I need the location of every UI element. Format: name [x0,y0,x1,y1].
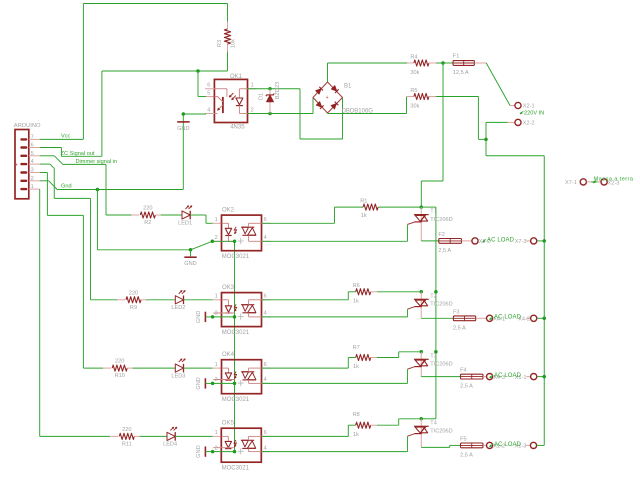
connector X1-1 [526,374,537,380]
svg-text:1: 1 [215,362,218,368]
svg-text:TIC206D: TIC206D [430,429,452,435]
connector X1-3 [526,442,537,448]
svg-text:X7-3: X7-3 [515,239,527,245]
resistor R10 220 [103,365,134,371]
wire gnd down row1 [97,190,190,250]
svg-text:F5: F5 [460,436,467,442]
wire pin4 [40,164,91,198]
svg-text:220: 220 [143,206,152,212]
junction triac T3 [420,350,424,354]
wire pin6 v [60,148,62,157]
svg-text:F1: F1 [453,54,460,60]
svg-text:MOC3021: MOC3021 [222,466,250,472]
svg-text:4: 4 [264,377,267,383]
wire pin2 gnd [40,181,184,190]
label X7-3 [515,239,527,245]
svg-text:Massa a terra: Massa a terra [594,177,634,183]
connector X4-2 [526,315,537,321]
svg-text:6: 6 [264,430,267,436]
label MOC3021 OK2 [222,254,250,260]
wire gnd rail [234,241,236,451]
wire bridge bottom [328,97,407,114]
resistor R4 [407,60,443,66]
pin 2 OK3 [215,311,218,317]
pin 2 OK5 [215,445,218,451]
fuse F4 2,5A [461,374,487,379]
wire pin6 h [40,147,62,149]
svg-text:B1: B1 [344,84,352,90]
junction rail load 3 [543,375,547,379]
wire R5 right [436,97,486,140]
svg-text:R9: R9 [130,305,137,311]
wire pin1 v [40,189,110,436]
label AC LOAD row4 [490,442,522,448]
label R5 [410,88,417,94]
label R11 [122,441,132,447]
wire T3 to F4 [421,376,460,378]
svg-text:R5: R5 [410,88,417,94]
label 220 R10 [115,359,124,365]
wire node71 h [102,70,228,72]
junction triac T1 [420,205,424,209]
connector SV1 ARDUINO [15,130,40,199]
pin 5 OK1 [207,91,210,97]
origin cross connector [15,162,18,168]
svg-text:2: 2 [31,176,34,182]
origin cross OK5 [238,448,244,454]
wire dimmer v [105,164,107,215]
pin 4 OK2 [264,235,267,241]
label R8 [353,412,360,418]
label OK4 [222,352,235,358]
label 30k R4 [410,70,419,76]
wire LED1 to OK2 [190,215,221,223]
svg-text:BZD23: BZD23 [275,82,281,99]
label R9 [130,305,137,311]
label 1k R1 [361,213,367,219]
label AC LOAD row1 [483,237,515,243]
label LED4 [163,442,177,448]
svg-text:Vcc: Vcc [61,134,71,140]
junction row1 gnd [189,248,193,252]
pin 6 OK1 [207,83,210,89]
label OK1 [230,74,243,80]
connector X2-2 [508,119,522,125]
transistor T3 triac TIC206D [408,352,429,377]
junction D1 bottom [268,112,272,116]
junction gnd branch [96,188,100,192]
svg-text:R6: R6 [353,283,360,289]
svg-text:AC LOAD: AC LOAD [487,237,515,243]
pin 4 OK5 [264,445,267,451]
label MOC3021 OK4 [222,397,250,403]
pin 6 OK2 [264,217,267,223]
svg-text:4: 4 [264,311,267,317]
wire R11 to LED4 [140,435,167,437]
wire triac rail row2 [435,292,437,352]
label 1k R8 [353,432,359,438]
label 220 R11 [122,427,131,433]
optocoupler OK4 MOC3021 [213,360,270,394]
svg-text:R11: R11 [122,441,132,447]
svg-text:2: 2 [215,377,218,383]
junction node71 [196,69,200,73]
wire LED2 to OK3 [184,299,222,301]
fuse F3 2,5A [453,316,486,321]
svg-text:ARDUINO: ARDUINO [14,123,41,129]
LED LED4 [167,427,177,441]
origin cross OK2 [238,238,244,244]
ground GND row3 [205,378,212,388]
label LED3 [171,373,185,379]
wire pin5 [40,156,106,165]
svg-text:+: + [15,162,18,168]
svg-text:D1: D1 [259,93,265,100]
wire Vcc pin7 [40,138,84,140]
label 4N35 [230,124,245,130]
wire phase rail [421,63,443,207]
connector X4-1 [487,315,493,321]
optocoupler OK3 MOC3021 [213,293,270,327]
label 10k R3 [231,39,237,48]
connector X1-2 [487,442,493,448]
svg-text:F3: F3 [453,309,460,315]
label AC LOAD row3 [490,373,522,379]
label F2 [438,232,445,238]
junction X2-2 R5 [484,138,488,142]
label GND row3 [196,377,202,389]
wire gnd OK4 [213,382,235,384]
svg-text:X7-1: X7-1 [565,180,577,186]
svg-text:30k: 30k [410,70,419,76]
fuse F5 2,5A [461,443,487,448]
wire right rail [543,156,545,446]
label 2,5 A F4 [460,384,473,390]
svg-text:T2: T2 [430,293,437,299]
svg-text:4N35: 4N35 [230,124,245,130]
label X4-3 [493,375,505,381]
pin 4 OK4 [264,377,267,383]
junction rail load 2 [543,317,547,321]
pin 1 OK4 [215,362,218,368]
svg-text:4: 4 [31,159,34,165]
label F5 [460,436,467,442]
svg-text:F2: F2 [438,232,445,238]
label X7-1 [565,180,577,186]
wire triac rail row3 [435,352,437,419]
svg-text:T4: T4 [430,420,437,426]
label AC LOAD row2 [490,315,522,321]
svg-text:T3: T3 [430,353,437,359]
LED LED2 [175,290,185,304]
fuse F1 [443,61,486,66]
wire gate T3 [262,369,408,383]
optocoupler OK5 MOC3021 [213,428,270,462]
junction triac T4 [420,417,424,421]
svg-text:6: 6 [264,217,267,223]
label D1 [259,93,265,100]
resistor R6 1k and wire [262,289,422,300]
label R10 [115,373,125,379]
svg-text:2,5 A: 2,5 A [460,384,473,390]
label T2 [430,293,437,299]
svg-text:2: 2 [251,107,254,113]
svg-text:220: 220 [122,427,131,433]
label GND row1 [184,261,196,267]
svg-text:1k: 1k [361,213,367,219]
label MOC3021 OK5 [222,466,250,472]
wire X7-3 to rail [537,240,544,242]
resistor R1 1k [363,204,421,210]
svg-text:1: 1 [215,294,218,300]
wire F1 diagonal [486,63,511,106]
wire Vcc vertical [82,4,84,140]
svg-text:X2-1: X2-1 [523,104,535,110]
transistor T2 triac TIC206D [408,292,429,319]
label TIC206D T2 [430,302,452,308]
label GND row4 [196,445,202,457]
label T1 [430,209,437,215]
svg-text:1: 1 [215,430,218,436]
svg-text:TIC206D: TIC206D [430,217,452,223]
label TIC206D T4 [430,429,452,435]
pin 4 OK1 [207,107,210,113]
junction gnd rail row4 [233,450,237,454]
svg-text:GND: GND [177,126,189,132]
label T3 [430,353,437,359]
wire X1-3 to rail [537,444,545,446]
wire OK1 pin4 [183,114,214,190]
label 1k R6 [353,298,359,304]
label TIC206D T3 [430,362,452,368]
wire X4-2 to rail [537,317,544,319]
pin 1 OK3 [215,294,218,300]
label 12,5 A [453,70,469,76]
label ZC Signal out [61,151,95,157]
optocoupler OK2 MOC3021 [212,215,270,251]
svg-text:30k: 30k [410,104,419,110]
LED LED1 [182,206,192,220]
svg-text:AC LOAD: AC LOAD [494,442,522,448]
svg-text:6: 6 [264,362,267,368]
svg-text:5: 5 [207,91,210,97]
label X2-3 [608,180,620,186]
svg-text:OK2: OK2 [222,207,235,213]
resistor R11 220 [110,433,141,439]
svg-text:MOC3021: MOC3021 [222,254,250,260]
wire ch3 v [83,215,103,368]
wire triac rail row4 [421,418,436,420]
junction D1 top [268,87,272,91]
label 220 R2 [143,206,152,212]
pin 2 OK2 [215,235,218,241]
wire X2-2 [486,122,508,139]
svg-text:F4: F4 [460,368,467,374]
wire T4 to F5 [421,445,460,447]
resistor R8 1k and wire [262,419,422,437]
label X4-2 [518,317,530,323]
svg-text:X2-2: X2-2 [523,121,535,127]
svg-text:OK1: OK1 [230,74,243,80]
junction rail row3 [434,350,438,354]
origin cross OK4 [238,380,244,386]
label OK3 [222,285,235,291]
pin 4 OK3 [264,311,267,317]
wire gate T4 [262,436,408,452]
label T4 [430,420,437,426]
svg-text:GND: GND [196,311,202,323]
label 1k R7 [353,364,359,370]
svg-text:1: 1 [251,83,254,89]
label LED2 [171,305,185,311]
bridge rectifier B1 [313,82,343,113]
junction rail load 1 [543,239,547,243]
svg-text:12,5 A: 12,5 A [453,70,469,76]
label 2,5 A F5 [460,452,473,458]
svg-text:R7: R7 [353,345,360,351]
label Vcc [61,134,71,140]
label F4 [460,368,467,374]
wire to OK1 pin5 [198,71,214,97]
resistor R5 [407,93,437,99]
svg-text:7: 7 [31,135,34,141]
wire row1 feed [106,214,132,216]
svg-text:R1: R1 [360,199,367,205]
diode D1 zener [266,89,274,114]
svg-text:AC LOAD: AC LOAD [494,315,522,321]
wire triac rail row1 [421,207,436,292]
ground GND row2 [205,312,212,322]
junction pin2 OK3 [211,315,215,319]
connector X7-1 [580,179,591,185]
svg-text:1k: 1k [353,432,359,438]
junction triac T2 [420,290,424,294]
svg-text:1k: 1k [353,364,359,370]
wire gnd OK3 [213,316,235,318]
wire LED3 to OK4 [184,367,222,369]
label X1-2 [493,444,505,450]
svg-text:OK3: OK3 [222,285,235,291]
pin 6 OK5 [264,430,267,436]
label Gnd [61,184,72,190]
wire T2 to F3 [421,317,453,319]
label GND row2 [196,311,202,323]
wire OK1 pin1 net [248,89,343,139]
svg-text:TIC206D: TIC206D [430,302,452,308]
wire ZC vertical [101,71,103,156]
label F3 [453,309,460,315]
connector X4-3 [487,374,493,380]
label X2-1 [523,104,535,110]
junction gnd rail row2 [233,315,237,319]
junction rail row2 [434,290,438,294]
junction gnd rail row3 [233,382,237,386]
wire ch2 v [91,198,118,299]
wire gate T2 [262,309,408,317]
ground GND OK1 [177,121,190,123]
wire X1-1 to rail [537,376,544,378]
wire R10 to LED3 [133,367,176,369]
label LED1 [178,220,192,226]
svg-text:2: 2 [215,311,218,317]
label R1 [360,199,367,205]
svg-text:LED3: LED3 [171,373,185,379]
wire ZC h [61,155,102,157]
svg-text:R2: R2 [144,220,151,226]
ground GND row1 [184,250,196,257]
svg-text:MOC3021: MOC3021 [222,397,250,403]
connector X2-1 [510,102,521,108]
connector X7-3 [526,238,537,244]
pin 1 OK2 [215,217,218,223]
resistor R9 220 [117,297,148,303]
svg-text:1: 1 [31,184,34,190]
label R2 [144,220,151,226]
label 30k R5 [410,104,419,110]
resistor R3 [224,4,230,72]
label OK2 [222,207,235,213]
label TIC206D T1 [430,217,452,223]
label 2,5 A F2 [438,248,451,254]
svg-text:3: 3 [31,168,34,174]
svg-text:LED1: LED1 [178,220,192,226]
svg-text:MOC3021: MOC3021 [222,330,250,336]
label B1 [344,84,352,90]
wire R2 to LED1 [161,214,182,216]
transistor T4 triac TIC206D [408,419,429,448]
label Dimmer signal in [76,159,118,165]
origin cross OK3 [238,314,244,320]
wire T1 to F2 [421,240,439,242]
pin 2 OK4 [215,377,218,383]
svg-text:6: 6 [31,143,34,149]
junction OK2 pin2 [211,240,215,244]
svg-text:220: 220 [129,290,138,296]
wire OK1 pin2 net [248,98,314,114]
wire R4 to F1 [436,62,443,64]
svg-text:LED4: LED4 [163,442,177,448]
svg-text:10k: 10k [231,39,237,48]
svg-text:2: 2 [215,235,218,241]
wire pin3 [40,173,84,216]
svg-text:AC LOAD: AC LOAD [494,373,522,379]
svg-text:6: 6 [207,83,210,89]
junction pin2 OK5 [211,450,215,454]
label X2-2 [523,121,535,127]
svg-text:TIC206D: TIC206D [430,362,452,368]
label X1-1 [515,375,527,381]
svg-text:R8: R8 [353,412,360,418]
op-amp U1 optocoupler OK1 4N35 [205,79,257,122]
svg-text:4: 4 [264,445,267,451]
svg-text:1k: 1k [353,298,359,304]
svg-text:220V IN: 220V IN [524,110,544,116]
wire massa [591,181,598,183]
pin 6 OK3 [264,294,267,300]
svg-text:5: 5 [31,151,34,157]
label DBDB106G [342,109,374,115]
svg-text:2,5 A: 2,5 A [438,248,451,254]
pin 6 OK4 [264,362,267,368]
label R4 [410,55,417,61]
label R7 [353,345,360,351]
svg-text:R10: R10 [115,373,125,379]
label 2,5 A F3 [453,325,466,331]
junction pin2 OK4 [211,382,215,386]
connector X7-2 [472,238,478,244]
pin 2 OK1 [251,107,254,113]
svg-text:2,5 A: 2,5 A [453,325,466,331]
